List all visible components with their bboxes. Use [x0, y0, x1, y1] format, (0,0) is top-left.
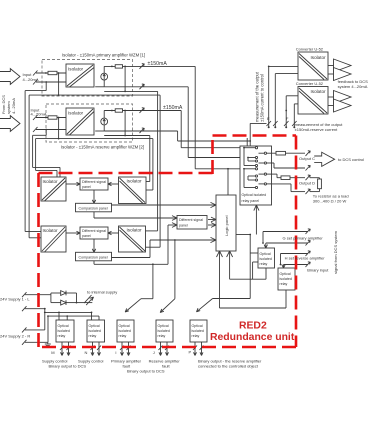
svg-text:J: J	[153, 350, 155, 355]
svg-text:relay: relay	[260, 262, 268, 266]
svg-text:isolated: isolated	[192, 329, 204, 333]
svg-text:panel: panel	[82, 234, 91, 238]
svg-text:relay: relay	[192, 334, 200, 338]
svg-text:panel: panel	[82, 185, 91, 189]
svg-text:300...400 Ω / 20 W: 300...400 Ω / 20 W	[313, 199, 347, 204]
svg-text:fault: fault	[123, 363, 131, 368]
svg-text:relay: relay	[280, 282, 288, 286]
svg-text:I: I	[115, 350, 116, 355]
svg-text:Isolator - ±150mA primary ampl: Isolator - ±150mA primary amplifier WZM …	[62, 53, 145, 58]
svg-text:4...20mA: 4...20mA	[11, 98, 16, 114]
svg-text:Optical: Optical	[280, 272, 291, 276]
svg-text:±150mA reserve current: ±150mA reserve current	[295, 127, 339, 132]
svg-text:RED2: RED2	[239, 321, 267, 332]
svg-text:relay panel: relay panel	[242, 199, 260, 203]
svg-text:Binary input: Binary input	[307, 268, 329, 273]
svg-text:P: P	[189, 350, 192, 355]
svg-text:24V Supply 2 - R: 24V Supply 2 - R	[0, 334, 30, 339]
svg-text:isolated: isolated	[89, 329, 101, 333]
svg-text:Optical: Optical	[158, 324, 169, 328]
svg-text:relay: relay	[89, 334, 97, 338]
svg-text:Optical isolated: Optical isolated	[242, 193, 267, 197]
svg-text:24V Supply 1 - L: 24V Supply 1 - L	[0, 297, 30, 302]
svg-text:relay: relay	[58, 334, 66, 338]
svg-text:isolated: isolated	[58, 329, 70, 333]
svg-text:Converter U-52: Converter U-52	[296, 81, 324, 86]
svg-text:Optical: Optical	[192, 324, 203, 328]
svg-text:Different signal: Different signal	[179, 218, 203, 222]
svg-text:to internal supply: to internal supply	[87, 290, 117, 295]
svg-text:H set reverse amplifier: H set reverse amplifier	[285, 256, 326, 261]
svg-text:Redundance unit: Redundance unit	[210, 332, 295, 343]
svg-text:Logic panel: Logic panel	[224, 215, 229, 236]
svg-text:signal from DCS system: signal from DCS system	[333, 230, 338, 274]
svg-text:to DCS control: to DCS control	[338, 157, 364, 162]
svg-text:Isolator: Isolator	[311, 55, 327, 60]
svg-text:4...20mA: 4...20mA	[23, 77, 39, 82]
svg-text:Comparsion panel: Comparsion panel	[79, 207, 108, 211]
svg-text:N: N	[85, 350, 88, 355]
svg-text:Isolator: Isolator	[43, 179, 59, 184]
svg-text:isolated: isolated	[119, 329, 131, 333]
svg-text:panel: panel	[179, 223, 188, 227]
svg-text:Converter U-52: Converter U-52	[296, 47, 324, 52]
svg-text:M: M	[51, 350, 54, 355]
svg-text:±150mA: ±150mA	[163, 105, 183, 111]
svg-text:Binary output to DCS: Binary output to DCS	[127, 369, 165, 374]
svg-text:G set primary amplifier: G set primary amplifier	[283, 236, 324, 241]
svg-text:Comparsion panel: Comparsion panel	[79, 256, 108, 260]
svg-text:Isolator: Isolator	[311, 89, 327, 94]
svg-text:system 4...20mA: system 4...20mA	[338, 84, 368, 89]
svg-text:fault: fault	[162, 363, 170, 368]
svg-text:±150mA current to control: ±150mA current to control	[260, 74, 265, 122]
svg-text:Output C: Output C	[299, 156, 315, 161]
svg-text:connected to the controlled ob: connected to the controlled object	[198, 363, 259, 368]
svg-text:relay: relay	[119, 334, 127, 338]
svg-text:Isolator: Isolator	[127, 179, 143, 184]
svg-text:Binary output to DCS: Binary output to DCS	[49, 364, 87, 369]
svg-text:Different signal: Different signal	[82, 180, 106, 184]
svg-text:Isolator - ±150mA reserve ampl: Isolator - ±150mA reserve amplifier WZM …	[61, 145, 144, 150]
svg-text:isolated: isolated	[260, 257, 272, 261]
svg-text:Isolator: Isolator	[68, 111, 84, 116]
svg-text:isolated: isolated	[280, 277, 292, 281]
svg-text:Isolator: Isolator	[127, 228, 143, 233]
svg-text:Different signal: Different signal	[82, 229, 106, 233]
svg-text:4...20mA: 4...20mA	[31, 112, 47, 117]
svg-text:Optical: Optical	[119, 324, 130, 328]
svg-text:Optical: Optical	[89, 324, 100, 328]
svg-text:Optical: Optical	[58, 324, 69, 328]
svg-text:Isolator: Isolator	[68, 67, 84, 72]
svg-text:isolated: isolated	[158, 329, 170, 333]
svg-text:±150mA: ±150mA	[148, 61, 168, 67]
svg-text:Output D: Output D	[299, 181, 315, 186]
svg-text:Optical: Optical	[260, 252, 271, 256]
svg-text:E: E	[267, 116, 270, 121]
svg-text:relay: relay	[158, 334, 166, 338]
svg-text:Isolator: Isolator	[43, 228, 59, 233]
